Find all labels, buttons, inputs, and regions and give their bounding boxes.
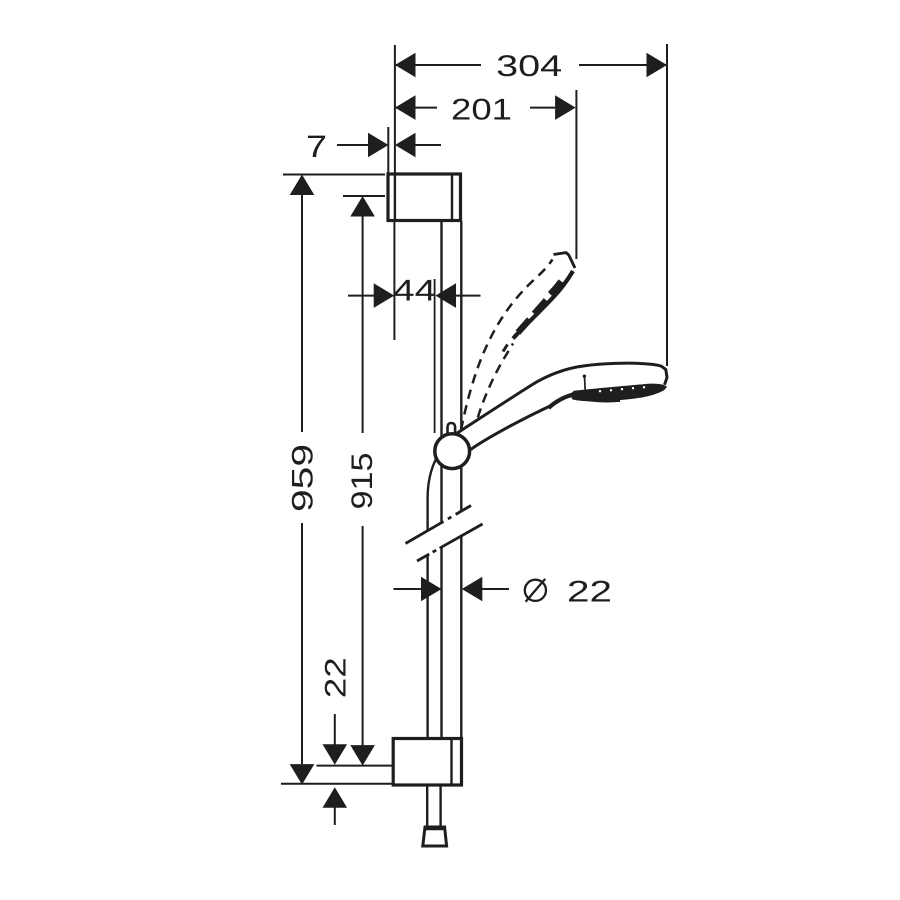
extension line 915 top horizontal y=196 bbox=[343, 195, 385, 197]
arrow 201 right bbox=[555, 95, 576, 120]
handshower face nozzle specks bbox=[599, 386, 645, 392]
rail left edge bbox=[440, 221, 442, 738]
extension line bracket outer x=388.5 bbox=[387, 127, 389, 174]
extension line head right x=668 bbox=[666, 44, 668, 366]
arrow 44 left (points right) bbox=[374, 283, 395, 308]
extension line top horizontal y=174.5 bbox=[283, 174, 385, 176]
rail right edge bbox=[460, 221, 462, 738]
arrow 959 bottom bbox=[290, 764, 315, 785]
dimension 7 line bbox=[337, 144, 369, 146]
arrow 44 right (points left) bbox=[436, 283, 457, 308]
raised head top corner outline bbox=[554, 253, 576, 268]
pipe break diagonal B bbox=[417, 524, 483, 561]
extension line bracket-bottom horizontal y=783.8 bbox=[281, 783, 392, 785]
svg-text:22: 22 bbox=[320, 657, 353, 698]
arrow 201 left bbox=[395, 95, 416, 120]
dimension dia22 line bbox=[394, 588, 423, 590]
handshower lower outline bbox=[471, 407, 549, 450]
arrow 304 right bbox=[647, 53, 668, 78]
svg-text:7: 7 bbox=[306, 129, 327, 164]
handshower spray face teeth bbox=[585, 400, 620, 402]
handshower head tick bbox=[584, 377, 587, 391]
extension line rail-end horizontal y=765.6 bbox=[317, 765, 394, 767]
arrow 915 bottom bbox=[350, 745, 375, 766]
hose upper curve from ball bbox=[428, 459, 436, 738]
pipe break white band bbox=[402, 508, 486, 559]
hose conical nut bbox=[423, 827, 447, 846]
handshower spray face dark band bbox=[572, 384, 667, 401]
svg-text:201: 201 bbox=[451, 94, 512, 127]
svg-text:44: 44 bbox=[393, 275, 436, 308]
dimension 304 line bbox=[395, 64, 481, 66]
dimension 201 line bbox=[395, 107, 437, 109]
dimension 915 line bbox=[362, 215, 364, 433]
svg-text:304: 304 bbox=[496, 50, 562, 83]
label dia 22 bbox=[525, 579, 546, 602]
extension line wall-face x=395 (top) bbox=[394, 45, 396, 174]
hose conical nut thick top bbox=[424, 826, 445, 830]
arrow 304 left bbox=[395, 53, 416, 78]
extension line raised head x=576.6 bbox=[575, 90, 577, 259]
extension line wall-face x=395 (below bracket) bbox=[393, 221, 395, 340]
arrow 915 top bbox=[350, 196, 375, 217]
raised head spray face blob 2 bbox=[535, 301, 547, 315]
arrow 22 bottom (points up) bbox=[323, 787, 348, 808]
dashed hose curve right (raised position) bbox=[478, 344, 513, 418]
tick dot bbox=[583, 375, 586, 378]
arrow 22 top (points down) bbox=[323, 744, 348, 765]
hose below bracket right edge bbox=[439, 786, 441, 826]
arrow 7 left (points right) bbox=[368, 133, 389, 158]
svg-text:915: 915 bbox=[346, 453, 379, 510]
raised head spray face blob 3 bbox=[518, 320, 530, 333]
handshower upper outline bbox=[456, 363, 668, 434]
slider clip stub bbox=[448, 423, 456, 436]
arrow dia22 left (points right) bbox=[421, 577, 442, 602]
dimension 22 line (bottom) bbox=[334, 714, 336, 746]
dimension 44 line bbox=[348, 295, 374, 297]
arrow 7 right (points left) bbox=[395, 133, 416, 158]
arrow 959 top bbox=[290, 175, 315, 196]
top wall bracket bbox=[388, 174, 461, 221]
extension line 44-dim x=434.6 bbox=[434, 279, 436, 433]
raised head spray face tail bbox=[503, 345, 508, 352]
dashed hose curve left (raised position) bbox=[461, 260, 553, 431]
handshower body (white fill) bbox=[456, 363, 668, 449]
hose below bracket left edge bbox=[426, 786, 428, 826]
svg-text:22: 22 bbox=[567, 576, 612, 609]
raised head spray face blob 1 bbox=[551, 282, 562, 295]
dimension 959 line bbox=[301, 193, 303, 432]
raised head spray face (dark band) bbox=[513, 271, 573, 339]
svg-text:959: 959 bbox=[286, 444, 319, 512]
handshower neck shadow swoosh bbox=[549, 395, 574, 409]
slider ball bbox=[435, 434, 470, 469]
bottom wall bracket bbox=[393, 739, 461, 786]
arrow dia22 right (points left) bbox=[462, 577, 483, 602]
pipe break diagonal A bbox=[406, 506, 472, 544]
